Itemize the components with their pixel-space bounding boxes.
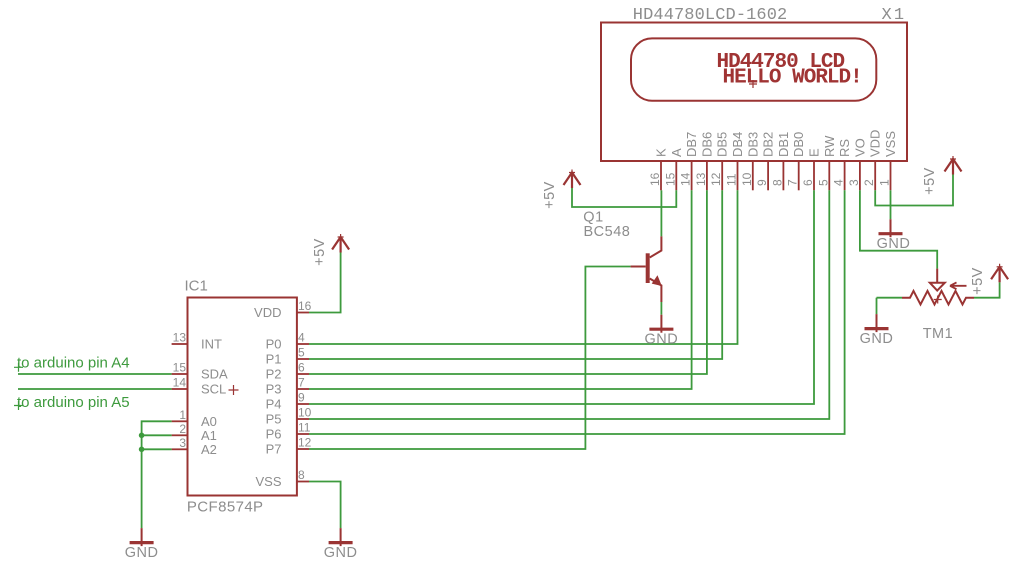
junction A2 [139,447,145,453]
svg-text:A0: A0 [201,414,217,429]
svg-text:2: 2 [179,422,186,436]
LCD pin 7 (DB0) [786,132,807,191]
label origin cross A5 [14,401,23,410]
svg-text:5: 5 [298,346,305,360]
svg-text:VO: VO [852,138,867,157]
svg-text:VDD: VDD [868,130,883,157]
+5V supply (IC1) [332,234,349,253]
wire LCD VSS to GND [890,190,892,219]
wire IC1 VDD to +5V [309,253,341,313]
svg-text:VSS: VSS [255,474,281,489]
svg-text:TM1: TM1 [923,326,954,342]
wire LCD VDD to +5V [875,175,953,206]
wire LCD A to +5V [572,188,676,207]
label origin cross A4 [14,363,23,372]
LCD pin 6 (E) [801,148,822,190]
svg-text:+5V: +5V [542,181,558,209]
svg-text:5: 5 [816,179,830,186]
IC1 pin 5 (P1) [266,346,309,367]
svg-text:15: 15 [173,361,187,375]
svg-text:A1: A1 [201,428,217,443]
IC1 pin 1 (A0) [172,408,217,429]
svg-text:GND: GND [860,331,894,347]
transistor Q1 BC548 [631,236,662,302]
svg-text:16: 16 [648,172,662,186]
IC1 PCF8574P outline [188,298,297,496]
svg-text:DB5: DB5 [715,132,730,157]
svg-text:P1: P1 [266,352,282,367]
LCD pin 2 (VDD) [862,130,883,191]
svg-text:BC548: BC548 [584,224,631,240]
ground GND (TM1) [865,314,889,332]
svg-text:10: 10 [740,172,754,186]
trimmer potentiometer TM1 [902,269,974,305]
svg-text:3: 3 [179,436,186,450]
svg-text:P2: P2 [266,367,282,382]
net P2 to LCD DB6 [309,190,707,374]
svg-text:4: 4 [298,331,305,345]
+5V supply (TM1) [991,264,1008,283]
svg-text:HELLO WORLD!: HELLO WORLD! [723,67,862,90]
junction A1 [139,433,145,439]
wire A1 [142,434,172,436]
wire TM1 left terminal [877,297,903,299]
IC1 pin 10 (P5) [266,406,312,427]
LCD pin 16 (K) [648,148,669,190]
wire SCL to arduino A5 [18,388,172,390]
IC1 pin 16 (VDD) [254,299,312,320]
wire TM1 to GND [876,298,878,314]
svg-text:SCL: SCL [201,382,226,397]
svg-text:VDD: VDD [254,305,281,320]
svg-text:14: 14 [679,172,693,186]
svg-text:+5V: +5V [970,267,986,295]
svg-text:6: 6 [801,179,815,186]
svg-text:DB1: DB1 [776,132,791,157]
svg-text:8: 8 [298,468,305,482]
svg-text:12: 12 [298,436,312,450]
svg-text:P4: P4 [266,397,282,412]
svg-text:to arduino pin A4: to arduino pin A4 [17,355,130,372]
svg-text:to arduino pin A5: to arduino pin A5 [17,394,130,411]
svg-text:HD44780LCD-1602: HD44780LCD-1602 [633,6,788,25]
LCD display window rounded rect [631,38,876,100]
IC1 pin 6 (P2) [266,361,309,382]
svg-text:7: 7 [786,179,800,186]
svg-text:+5V: +5V [922,167,938,195]
svg-text:RS: RS [837,139,852,157]
ground GND (IC1 address pins) [130,528,154,546]
IC1 pin 2 (A1) [172,422,217,443]
svg-text:IC1: IC1 [185,278,208,295]
LCD pin 3 (VO) [847,138,868,190]
wire SDA to arduino A4 [18,373,172,375]
wire A0/A1/A2 bus down to GND [142,421,172,528]
svg-text:DB2: DB2 [761,132,776,157]
svg-text:1: 1 [179,408,186,422]
svg-text:X1: X1 [882,6,907,25]
svg-text:9: 9 [755,179,769,186]
LCD pin 5 (RW) [816,135,837,190]
IC1 symbol origin cross [229,385,239,395]
LCD pin 10 (DB3) [740,132,761,191]
svg-text:8: 8 [770,179,784,186]
svg-text:13: 13 [173,331,187,345]
svg-text:E: E [807,148,822,157]
IC1 pin 9 (P4) [266,391,309,412]
LCD pin 4 (RS) [832,139,853,191]
svg-text:PCF8574P: PCF8574P [187,499,264,516]
svg-text:GND: GND [645,332,679,348]
svg-text:14: 14 [173,376,187,390]
LCD pin 15 (A) [663,148,684,190]
svg-text:1: 1 [878,179,892,186]
svg-text:K: K [654,148,669,157]
IC1 pin 15 (SDA) [172,361,228,382]
svg-text:9: 9 [298,391,305,405]
net P0 to LCD DB4 [309,190,738,344]
net P4 to LCD E [309,190,814,404]
svg-text:A2: A2 [201,442,217,457]
svg-text:DB7: DB7 [684,132,699,157]
net P5 to LCD RW [309,190,829,419]
svg-text:3: 3 [847,179,861,186]
ground GND (IC1 VSS) [329,528,353,546]
svg-text:VSS: VSS [883,131,898,157]
svg-text:INT: INT [201,337,222,352]
svg-text:DB4: DB4 [730,132,745,157]
LCD pin 1 (VSS) [878,131,899,191]
svg-text:16: 16 [298,299,312,313]
svg-text:Q1: Q1 [583,209,603,225]
svg-text:SDA: SDA [201,367,228,382]
wire IC1 VSS to GND [309,482,341,529]
net P3 to LCD DB7 [309,190,692,389]
wire LCD VO to TM1 wiper [860,190,937,268]
svg-text:P5: P5 [266,412,282,427]
wire A2 [142,448,172,450]
+5V supply (LCD VDD) [945,156,962,175]
svg-text:GND: GND [125,545,159,561]
LCD symbol origin cross [749,80,757,88]
IC1 pin 13 (INT) [172,331,222,352]
net P1 to LCD DB5 [309,190,722,359]
wire Q1 emitter to GND [660,302,662,315]
svg-text:2: 2 [862,179,876,186]
LCD pin 11 (DB4) [725,132,746,191]
net P6 to LCD RS [309,190,845,434]
svg-text:+5V: +5V [312,238,328,266]
LCD pin 9 (DB2) [755,132,776,191]
svg-text:DB3: DB3 [745,132,760,157]
svg-text:DB6: DB6 [699,132,714,157]
svg-text:15: 15 [663,172,677,186]
svg-text:DB0: DB0 [791,132,806,157]
wire TM1 right terminal to +5V [974,282,1000,297]
svg-text:P6: P6 [266,427,282,442]
svg-text:11: 11 [298,421,311,435]
LCD module X1 outline [601,23,907,162]
svg-text:11: 11 [725,173,739,186]
svg-text:10: 10 [298,406,312,420]
net P7 to Q1 base [309,267,631,450]
svg-text:4: 4 [832,179,846,186]
IC1 pin 11 (P6) [266,421,311,442]
IC1 pin 14 (SCL) [172,376,227,397]
IC1 pin 4 (P0) [266,331,309,352]
svg-text:7: 7 [298,376,305,390]
svg-text:13: 13 [694,172,708,186]
svg-text:P7: P7 [266,442,282,457]
LCD pin 12 (DB5) [709,132,730,191]
LCD pin 8 (DB1) [770,132,791,191]
wire LCD K to Q1 collector [660,190,662,236]
LCD pin 14 (DB7) [679,132,700,191]
ground GND (Q1 emitter) [649,315,673,333]
svg-text:A: A [669,148,684,157]
+5V supply (LCD backlight) [564,170,581,189]
svg-text:P3: P3 [266,382,282,397]
svg-text:P0: P0 [266,337,282,352]
IC1 pin 12 (P7) [266,436,312,457]
IC1 pin 8 (VSS) [255,468,309,489]
ground GND (LCD VSS) [879,219,903,237]
svg-text:6: 6 [298,361,305,375]
LCD pin 13 (DB6) [694,132,715,191]
svg-text:GND: GND [324,545,358,561]
IC1 pin 7 (P3) [266,376,309,397]
svg-text:12: 12 [709,172,723,186]
svg-text:RW: RW [822,135,837,157]
IC1 pin 3 (A2) [172,436,217,457]
